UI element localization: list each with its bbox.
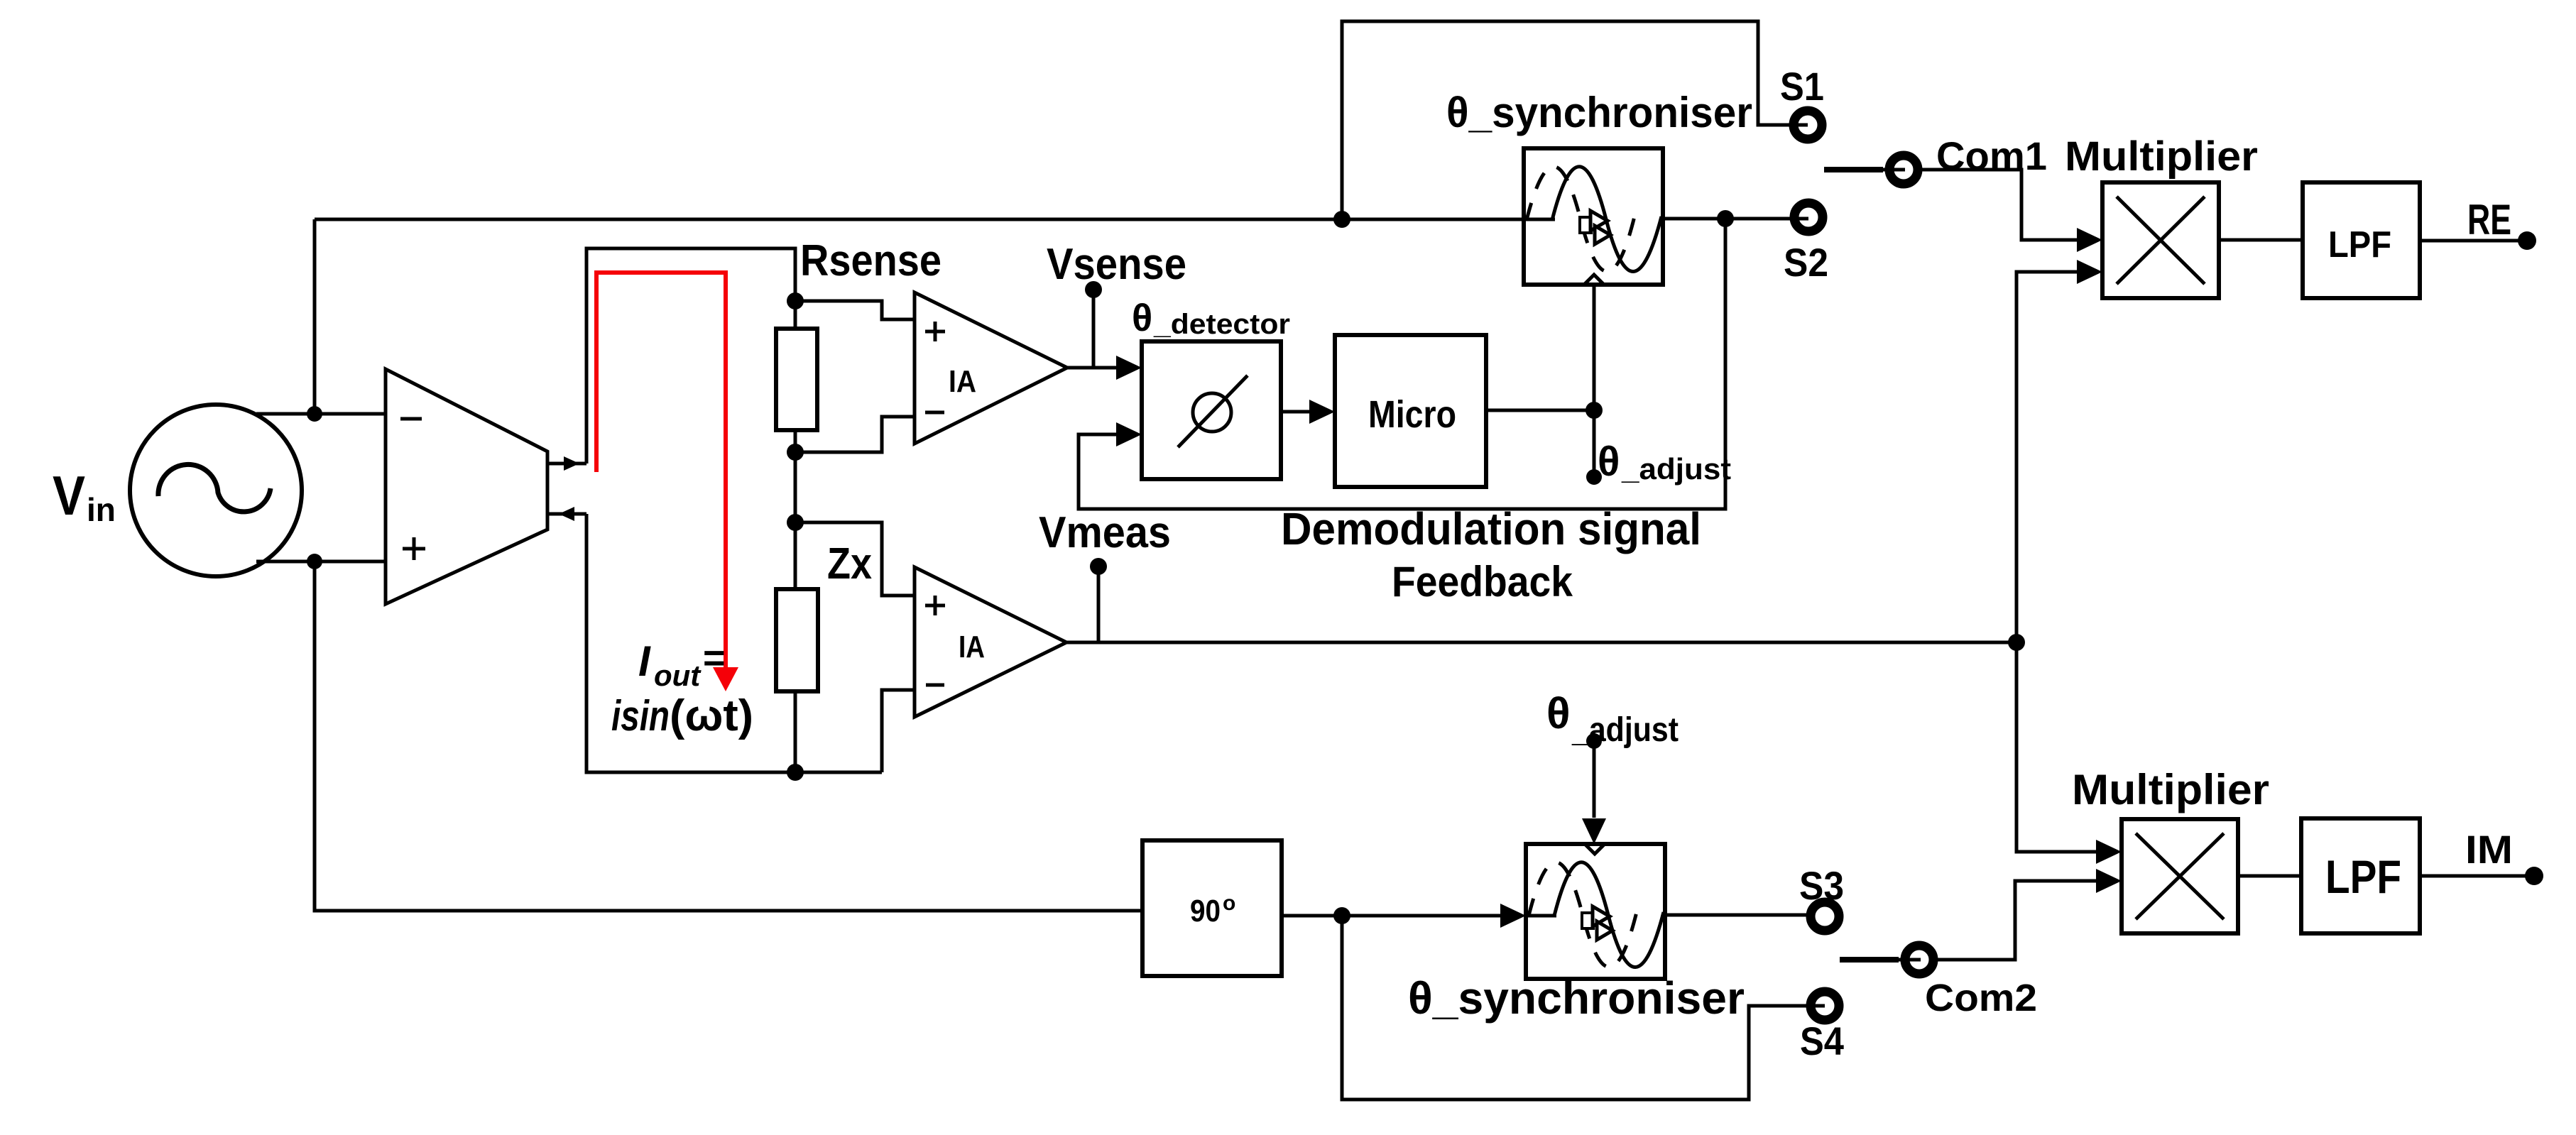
wire bottom rail to IA2 minus [882,690,915,772]
wire loop feedback to amp [549,512,586,516]
wire Rsense bottom to IA1 minus [795,417,915,452]
svg-text:_detector: _detector [1153,309,1290,340]
node Zx top [787,514,804,531]
wire resistor chain vertical [794,301,797,772]
arrow into multiplier2 top [2096,840,2122,864]
arrow into theta detector lower input [1116,422,1142,446]
wire Vmeas drop to multiplier2 top input [2016,642,2096,852]
wire S4 return path [1342,916,1825,1100]
svg-text:S3: S3 [1799,863,1844,908]
node top bus junction [1333,211,1350,228]
svg-text:Feedback: Feedback [1392,558,1573,605]
svg-text:Rsense: Rsense [800,236,942,285]
label theta_detector [1132,297,1290,340]
svg-text:in: in [87,491,116,528]
svg-text:IA: IA [949,364,976,399]
wire top bus to synchroniser [315,218,1553,221]
wire loop left upper vertical and top [586,248,795,464]
svg-text:θ: θ [1132,297,1152,339]
wire Vmeas riser to multiplier1 bottom input [2016,272,2077,642]
svg-text:S2: S2 [1784,240,1828,285]
svg-text:90: 90 [1190,894,1221,928]
svg-text:LPF: LPF [2328,224,2391,265]
node RE terminal [2518,231,2536,250]
node IM terminal [2525,867,2543,885]
node theta_adjust lower start [1586,733,1602,749]
wire theta_adjust up into synchroniser1 [1593,285,1596,410]
node bottom-left junction [307,554,322,569]
svg-text:LPF: LPF [2325,850,2401,903]
red current path I_out [596,273,738,691]
block theta synchroniser2 [1526,844,1665,979]
wire IA1 output to theta detector [1067,366,1115,370]
switch common Com2 [1905,945,1933,974]
svg-text:θ_synchroniser: θ_synchroniser [1408,972,1745,1024]
wire Vmeas tap [1097,566,1101,642]
svg-text:Multiplier: Multiplier [2072,766,2269,813]
node Rsense bottom [787,444,804,461]
wire Rsense top to IA1 plus [795,301,915,319]
svg-text:=: = [703,637,726,679]
wire top feedback S1 [1342,21,1808,219]
arrow feedback into amp [559,507,574,521]
wire multiplier1 to LPF1 [2219,238,2303,242]
wire LPF2 to IM [2420,874,2526,878]
wire Com1 pole stub [1824,167,1883,172]
wire LPF1 to RE [2420,239,2527,243]
op-amp IA2 [915,567,1066,717]
svg-text:Demodulation signal: Demodulation signal [1281,503,1701,554]
svg-text:S4: S4 [1800,1019,1844,1063]
resistor Zx [776,589,818,691]
node Vmeas [1090,558,1107,575]
chevron into synchroniser1 bottom [1585,275,1603,284]
node S2 junction [1717,210,1734,227]
svg-text:Multiplier: Multiplier [2065,133,2258,180]
wire stub inside synchroniser1 [1524,218,1555,221]
arrow into multiplier1 bottom [2077,260,2102,284]
arrow into theta detector upper input [1116,356,1142,380]
arrow amp output [564,456,579,471]
arrow into multiplier2 bottom [2096,869,2122,893]
label theta_adjust upper [1598,439,1731,486]
node Micro output junction [1586,402,1603,419]
wire IA2 output Vmeas bus [1066,641,2016,645]
wire multiplier2 to LPF2 [2238,874,2301,878]
block theta detector [1142,341,1281,479]
node Zx bottom [787,764,804,781]
svg-text:V: V [53,464,85,527]
block LPF1 [2303,182,2420,298]
wire 90deg output to synchroniser2 [1282,914,1500,918]
block 90 degree phase shifter [1142,840,1282,976]
svg-text:I: I [638,637,651,685]
block LPF2 [2301,818,2420,933]
svg-text:θ: θ [1546,689,1571,738]
wire synchroniser1 output to S2 [1664,217,1808,221]
wire Vin top to amp [256,412,386,416]
wire vertical down to 90deg path [315,561,1142,911]
node Vsense [1085,281,1102,298]
arrow into multiplier1 top [2077,228,2102,252]
op-amp IA1 [915,292,1067,444]
wire Com1 to multiplier1 top input [1920,170,2077,240]
svg-text:IA: IA [959,630,985,664]
block Micro [1335,335,1486,487]
svg-text:Com1: Com1 [1936,133,2047,178]
svg-text:Micro: Micro [1368,393,1456,436]
source V_in [130,405,302,576]
svg-text:θ: θ [1598,439,1620,485]
label isin(wt) [611,691,753,740]
svg-text:θ_synchroniser: θ_synchroniser [1446,89,1752,136]
svg-text:Zx: Zx [827,539,872,588]
wire Vin bottom to amp [256,560,386,564]
svg-text:Vsense: Vsense [1047,240,1186,289]
node theta_adjust terminal [1586,469,1602,485]
svg-text:S1: S1 [1780,64,1824,109]
node top-left junction [307,406,322,422]
svg-text:Com2: Com2 [1925,977,2037,1019]
wire Vsense tap [1092,290,1096,368]
label Iout = [638,637,726,692]
arrow into Micro [1309,400,1335,424]
wire synchroniser2 output to S3 [1666,914,1810,917]
svg-text:isin: isin [611,692,670,740]
label Vin [53,464,116,528]
svg-text:(ωt): (ωt) [670,691,753,740]
switch terminal S2 [1794,203,1823,231]
svg-text:_adjust: _adjust [1621,452,1731,486]
node Vmeas riser junction [2008,634,2025,651]
wire Com2 to multiplier2 bottom input [1936,881,2096,960]
wire amp output to loop [547,462,586,466]
svg-text:IM: IM [2465,827,2513,872]
wire stub inside synchroniser2 [1526,914,1556,918]
chevron into synchroniser2 top [1585,844,1605,854]
switch terminal S3 [1811,902,1839,931]
node Rsense top [787,292,804,309]
wire theta detector to Micro [1281,410,1309,414]
arrow into synchroniser2 [1500,904,1526,928]
wire feedback rail from S2 node to detector [1079,219,1725,509]
svg-text:Vmeas: Vmeas [1039,508,1171,557]
node 90deg output junction [1333,907,1350,924]
switch common Com1 [1889,155,1918,184]
switch terminal S1 [1794,111,1822,139]
wire theta_adjust down to synchroniser2 [1593,741,1596,818]
op-amp power amplifier [386,369,547,604]
label theta_adjust lower [1546,689,1679,749]
block multiplier2 [2122,819,2238,933]
wire vertical up to top bus [313,219,317,414]
wire theta_adjust stub down [1593,410,1596,477]
switch terminal S4 [1811,992,1839,1020]
wire Com2 pole stub [1840,957,1899,963]
resistor Rsense [776,329,817,430]
svg-text:RE: RE [2467,196,2511,243]
svg-text:o: o [1223,892,1235,915]
svg-text:out: out [654,659,702,692]
arrow into synchroniser2 top [1582,818,1606,844]
wire loop left lower vertical and bottom rail [586,514,882,772]
wire Micro output to theta_adjust node [1486,409,1594,412]
wire Zx top to IA2 plus [795,522,915,596]
block theta synchroniser1 [1524,148,1663,285]
block multiplier1 [2102,182,2219,298]
